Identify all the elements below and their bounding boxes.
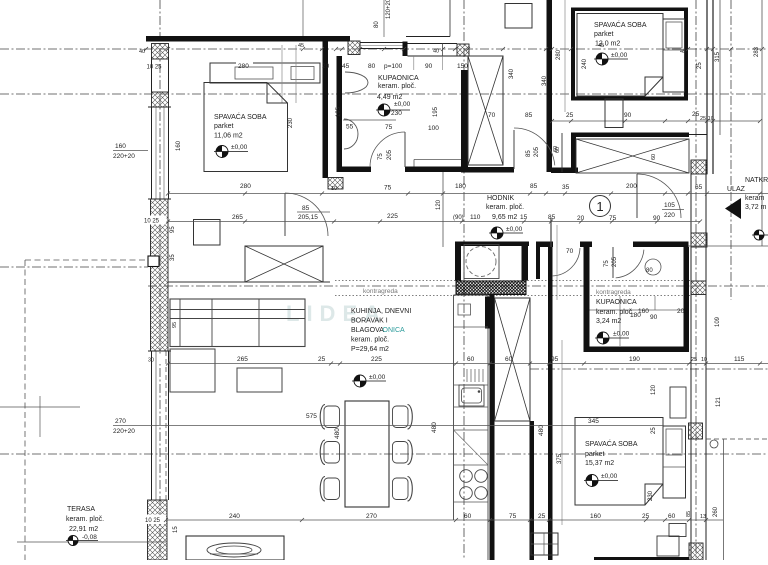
sofa	[170, 299, 305, 347]
dim line y=425 across	[160, 425, 663, 427]
left wall: long hatched segment	[151, 199, 169, 351]
kitchen wall x=490	[490, 295, 495, 560]
svg-text:±0,00: ±0,00	[394, 101, 411, 108]
svg-text:10: 10	[331, 186, 337, 192]
svg-text:270: 270	[366, 513, 377, 520]
washer niche box	[464, 245, 499, 279]
kitchen sink	[459, 385, 484, 406]
svg-text:75: 75	[609, 215, 617, 222]
corridor wall x=548 lower	[548, 247, 553, 560]
svg-text:160: 160	[115, 143, 126, 150]
svg-text:NATKR: NATKR	[745, 177, 768, 184]
svg-text:65: 65	[695, 184, 703, 191]
shaft below walls	[461, 167, 514, 173]
svg-text:230: 230	[288, 117, 294, 128]
svg-text:25: 25	[691, 357, 697, 363]
bedroom2 wardrobe	[505, 4, 532, 29]
svg-text:ONICA: ONICA	[383, 327, 406, 334]
bathroom1 vanity	[414, 159, 461, 161]
svg-text:60: 60	[467, 356, 475, 363]
svg-text:70: 70	[488, 112, 496, 119]
svg-text:75: 75	[385, 124, 393, 131]
svg-text:205,15: 205,15	[298, 214, 318, 221]
shaft box with X	[468, 56, 503, 165]
svg-text:kontragreda: kontragreda	[363, 288, 398, 295]
svg-text:40: 40	[139, 49, 145, 55]
svg-text:±0,00: ±0,00	[601, 473, 618, 480]
svg-text:160: 160	[176, 140, 182, 151]
svg-text:BORAVAK I: BORAVAK I	[351, 318, 388, 325]
svg-text:480: 480	[334, 428, 341, 439]
axis line V2 (vertical x=465)	[463, 0, 465, 560]
svg-text:220: 220	[664, 212, 675, 219]
svg-text:60: 60	[553, 146, 559, 152]
svg-text:ULAZ: ULAZ	[727, 186, 746, 193]
svg-text:25: 25	[538, 513, 546, 520]
right wall hatch pier 3	[691, 281, 706, 295]
left wall void edges	[151, 57, 153, 92]
bathroom1 toilet	[344, 119, 358, 149]
bathroom1/hall wall y=167 right	[405, 167, 461, 173]
svg-text:25: 25	[566, 112, 574, 119]
svg-text:190: 190	[629, 356, 640, 363]
bedroom3 label box	[575, 418, 663, 506]
svg-text:225: 225	[371, 356, 382, 363]
svg-text:SPAVAĆA SOBA: SPAVAĆA SOBA	[594, 20, 647, 29]
left wall text 10 25 (2)	[144, 216, 167, 225]
axis line V1 (vertical x=160)	[159, 0, 161, 560]
svg-text:10 25: 10 25	[147, 65, 163, 71]
bathroom1 sink	[345, 72, 368, 93]
svg-text:240: 240	[229, 513, 240, 520]
svg-text:230: 230	[391, 110, 402, 117]
axis line D (horizontal y=454)	[0, 453, 768, 455]
svg-text:p=100: p=100	[384, 63, 403, 70]
svg-text:90: 90	[650, 314, 658, 321]
svg-text:45: 45	[298, 43, 304, 49]
top wall bedroom1	[146, 36, 350, 42]
dim row y=363 living	[168, 363, 768, 365]
terrace table	[186, 536, 284, 560]
svg-text:-0,08: -0,08	[82, 534, 97, 541]
svg-text:15,37 m2: 15,37 m2	[585, 460, 614, 467]
svg-text:10: 10	[701, 357, 707, 363]
axis line C (horizontal y=286)	[148, 285, 768, 287]
line to porch	[689, 134, 707, 136]
bedroom3 nightstand bottom	[669, 524, 686, 537]
bedroom3 bottom edge wall	[594, 557, 689, 560]
svg-text:121: 121	[716, 396, 722, 407]
svg-text:45: 45	[342, 63, 350, 70]
svg-text:120: 120	[651, 384, 657, 395]
svg-text:345: 345	[588, 418, 599, 425]
svg-text:keram. ploč.: keram. ploč.	[486, 204, 524, 211]
bathroom2 left wall	[584, 242, 590, 353]
axis line V3 (vertical x=696)	[695, 0, 697, 560]
svg-text:3,72 m: 3,72 m	[745, 204, 767, 211]
svg-text:parket: parket	[214, 123, 234, 130]
svg-text:90: 90	[653, 215, 661, 222]
hall door leaf+arc (x=514)	[513, 130, 515, 169]
porch floor line	[672, 245, 768, 247]
bedroom2 bottom wall	[571, 97, 688, 101]
svg-text:parket: parket	[585, 451, 605, 458]
dim row y=193	[168, 193, 768, 195]
svg-text:KUPAONICA: KUPAONICA	[378, 75, 419, 82]
svg-text:85: 85	[526, 150, 532, 157]
svg-text:11,06 m2: 11,06 m2	[214, 133, 243, 140]
svg-text:±0,00: ±0,00	[369, 374, 386, 381]
right wall hatch pier 1	[691, 160, 707, 174]
svg-text:120: 120	[436, 199, 442, 210]
svg-text:keram. ploč.: keram. ploč.	[378, 83, 416, 90]
corridor wall x=548	[547, 0, 553, 172]
svg-text:160: 160	[590, 513, 601, 520]
svg-text:20: 20	[577, 215, 585, 222]
svg-text:80: 80	[646, 268, 653, 274]
shower tray bottom	[531, 533, 558, 555]
svg-text:95: 95	[172, 322, 178, 328]
axis line V4 (vertical x=731)	[730, 0, 732, 300]
svg-text:25: 25	[642, 513, 650, 520]
svg-text:KUHINJA, DNEVNI: KUHINJA, DNEVNI	[351, 308, 411, 315]
svg-text:109: 109	[715, 316, 721, 327]
svg-text:keram. ploč.: keram. ploč.	[596, 309, 634, 316]
svg-text:60: 60	[651, 154, 657, 160]
svg-text:BLAGOVA: BLAGOVA	[351, 327, 384, 334]
svg-text:205: 205	[612, 256, 618, 267]
svg-text:230: 230	[648, 490, 654, 501]
svg-text:20: 20	[322, 63, 330, 70]
kitchen counter outline	[453, 295, 455, 520]
svg-text:55: 55	[346, 124, 354, 131]
left wall text 10 25 (3)	[144, 515, 166, 525]
svg-text:P=29,64 m2: P=29,64 m2	[351, 346, 389, 353]
dim row y=221	[168, 221, 700, 223]
bathroom1 left wall	[337, 56, 343, 172]
svg-text:3,24 m2: 3,24 m2	[596, 318, 621, 325]
svg-text:195: 195	[336, 106, 342, 117]
svg-text:12,0 m2: 12,0 m2	[595, 41, 620, 48]
dim line top axis ticks	[144, 47, 148, 51]
svg-text:25: 25	[692, 111, 700, 118]
bedroom3 bed	[663, 426, 686, 498]
svg-text:200: 200	[626, 183, 637, 190]
svg-text:25: 25	[651, 427, 657, 434]
svg-text:±0,00: ±0,00	[506, 226, 523, 233]
hallway left edge line	[442, 172, 444, 247]
svg-text:70: 70	[566, 248, 574, 255]
pantry/stair xbox	[495, 298, 531, 421]
wall segment right of hall door	[551, 168, 578, 174]
kitchen divider lines	[454, 326, 489, 328]
door1 lobby leaf+arc	[550, 218, 552, 247]
svg-text:110: 110	[470, 214, 481, 221]
porch wall lines x=707-713	[706, 0, 708, 174]
window band 2	[408, 43, 458, 45]
svg-text:±0,00: ±0,00	[231, 144, 248, 151]
svg-text:10 25: 10 25	[144, 219, 160, 225]
svg-text:15: 15	[173, 526, 179, 533]
svg-text:180: 180	[455, 183, 466, 190]
svg-text:±0,00: ±0,00	[611, 52, 628, 59]
svg-text:1: 1	[596, 199, 603, 214]
dim row hallway top y=121	[552, 120, 760, 122]
svg-text:35: 35	[170, 254, 176, 261]
bedroom2 right wall	[684, 8, 688, 101]
wall x=530	[529, 298, 531, 421]
svg-text:22,91 m2: 22,91 m2	[69, 526, 98, 533]
right wall line pair	[690, 160, 692, 560]
svg-text:25: 25	[318, 356, 326, 363]
svg-text:SPAVAĆA SOBA: SPAVAĆA SOBA	[214, 112, 267, 121]
svg-text:160: 160	[638, 308, 649, 315]
svg-text:85: 85	[525, 112, 533, 119]
closet witness lines	[281, 45, 283, 103]
bedroom1 closet	[210, 63, 320, 83]
beam line above living room	[168, 281, 330, 283]
bedroom2 bed	[663, 19, 685, 92]
kitchen upper inner box	[458, 304, 471, 315]
svg-text:280: 280	[240, 183, 251, 190]
witness x=565	[564, 0, 566, 112]
svg-text:225: 225	[387, 213, 398, 220]
svg-text:kontragreda: kontragreda	[596, 289, 631, 296]
svg-text:60: 60	[505, 356, 513, 363]
svg-text:150: 150	[457, 63, 468, 70]
right wall hatch pier 5	[689, 543, 703, 560]
sink drainer lines	[466, 369, 468, 382]
svg-text:205: 205	[387, 149, 393, 160]
svg-text:(90): (90)	[453, 215, 464, 221]
svg-text:75: 75	[604, 260, 610, 267]
svg-text:240: 240	[582, 58, 588, 69]
bathroom2 interior lines	[590, 309, 684, 311]
hatch pier x=457	[457, 44, 469, 56]
bedroom1 desk	[194, 220, 221, 246]
left wall: bottom hatch pier	[148, 500, 168, 560]
coffee table	[237, 368, 282, 392]
door2 bathroom2 leaf+arc	[612, 247, 614, 278]
svg-text:25: 25	[697, 62, 703, 69]
bathroom1 right wall thick	[461, 70, 468, 172]
right wall hatch pier 4	[689, 423, 703, 439]
svg-text:95: 95	[170, 226, 176, 233]
hall bottom wall piece T	[580, 242, 592, 248]
svg-text:80: 80	[368, 63, 376, 70]
svg-text:keram. ploč.: keram. ploč.	[66, 516, 104, 523]
svg-text:45: 45	[680, 49, 686, 55]
svg-text:4,49 m2: 4,49 m2	[377, 94, 402, 101]
svg-text:115: 115	[734, 356, 745, 363]
axis left y=267	[0, 266, 148, 268]
axis line E (horizontal y=369 right)	[530, 368, 768, 370]
left wall: hatch pier 2	[152, 92, 169, 107]
svg-text:280: 280	[556, 49, 562, 60]
svg-text:95: 95	[551, 356, 559, 363]
svg-text:35: 35	[562, 184, 570, 191]
facade step outline	[406, 36, 450, 38]
closet top wall hall	[571, 133, 689, 138]
electrical panel box on left wall	[148, 256, 159, 267]
svg-text:340: 340	[542, 75, 548, 86]
terrace edge line	[17, 541, 166, 543]
axis line B (horizontal y=94)	[0, 93, 768, 95]
wc sink	[645, 259, 661, 275]
witness lines lobby	[556, 225, 558, 300]
entrance arrow	[725, 198, 741, 219]
left wall terrace door opening	[151, 351, 153, 500]
svg-text:85: 85	[302, 205, 310, 212]
left wall window (160/220+20)	[151, 107, 153, 199]
svg-text:85: 85	[548, 214, 556, 221]
hall closet with X	[576, 139, 689, 173]
svg-text:85: 85	[530, 183, 538, 190]
svg-text:keram: keram	[745, 195, 765, 202]
bedroom1 right wall	[323, 41, 329, 178]
svg-text:270: 270	[115, 418, 126, 425]
svg-text:315: 315	[715, 51, 721, 62]
svg-text:20: 20	[677, 308, 685, 315]
svg-text:480: 480	[431, 422, 438, 433]
svg-text:60: 60	[464, 513, 472, 520]
svg-text:280: 280	[238, 63, 249, 70]
terrace left guide	[0, 406, 80, 408]
bedroom1 door leaf+arc	[284, 193, 286, 236]
svg-text:80: 80	[374, 21, 380, 28]
bathroom1/hall wall y=167 left	[337, 167, 372, 173]
svg-text:205: 205	[534, 146, 540, 157]
svg-text:220+20: 220+20	[113, 153, 135, 160]
svg-text:40: 40	[433, 49, 439, 55]
duct rect below bedroom2	[605, 99, 623, 128]
bathroom1 door leaf+arc	[404, 132, 406, 167]
svg-text:90: 90	[624, 112, 632, 119]
svg-text:60: 60	[668, 513, 676, 520]
svg-text:265: 265	[237, 356, 248, 363]
svg-text:15: 15	[520, 214, 528, 221]
svg-text:HODNIK: HODNIK	[487, 195, 515, 202]
svg-text:120+20: 120+20	[386, 0, 392, 19]
svg-text:480: 480	[538, 425, 545, 436]
stove 4 plates	[460, 470, 473, 483]
window p=100 top	[360, 42, 404, 44]
svg-text:340: 340	[509, 68, 515, 79]
bedroom1 room label box	[204, 83, 288, 172]
svg-text:±0,00: ±0,00	[613, 331, 630, 338]
porch outer edge	[761, 0, 763, 246]
svg-text:10 25: 10 25	[145, 518, 161, 524]
svg-text:75: 75	[384, 185, 392, 192]
washer niche side walls	[455, 242, 461, 281]
top wall jog pier	[403, 42, 408, 57]
svg-text:283: 283	[754, 46, 760, 57]
dining chairs	[324, 406, 340, 428]
bathroom2 walls	[584, 347, 689, 353]
chaise below sofa	[170, 349, 215, 392]
svg-text:100: 100	[428, 125, 439, 132]
kontragreda beam (dark hatch)	[456, 281, 526, 295]
svg-text:220+20: 220+20	[113, 428, 135, 435]
dining table	[345, 401, 389, 507]
svg-text:105: 105	[664, 202, 675, 209]
svg-text:260: 260	[713, 506, 719, 517]
svg-text:13: 13	[700, 514, 706, 520]
right wall hatch pier 2	[691, 233, 707, 247]
bedroom1 closet xbox	[245, 246, 323, 282]
svg-text:575: 575	[306, 413, 317, 420]
hall bottom wall segment A	[455, 242, 529, 247]
svg-text:75: 75	[378, 153, 384, 160]
svg-text:85: 85	[686, 511, 692, 517]
number circle 1	[590, 196, 611, 217]
svg-text:90: 90	[425, 63, 433, 70]
svg-text:SPAVAĆA SOBA: SPAVAĆA SOBA	[585, 439, 638, 448]
hatch pier top wall	[348, 41, 360, 55]
kontragreda dotted outlines	[335, 280, 690, 282]
svg-text:parket: parket	[594, 31, 614, 38]
svg-text:keram. ploč.: keram. ploč.	[351, 337, 389, 344]
dim row y=520 bottom	[166, 519, 723, 521]
dashed line right y=439	[706, 438, 768, 440]
svg-text:375: 375	[557, 453, 563, 464]
property dashed boundary	[25, 259, 148, 261]
bathroom1 shower line	[343, 119, 396, 121]
bedroom2 left wall	[571, 8, 575, 101]
hatch pier bedroom1 door	[328, 178, 343, 190]
svg-text:KUPAONICA: KUPAONICA	[596, 299, 637, 306]
dim verticals above top wall	[302, 0, 304, 36]
axis line A (horizontal y=49)	[0, 48, 768, 50]
svg-text:TERASA: TERASA	[67, 506, 95, 513]
svg-text:195: 195	[433, 106, 439, 117]
closet left wall stub	[571, 133, 576, 172]
bedroom2 label box	[577, 14, 663, 97]
fridge lines	[454, 430, 489, 465]
bedroom3 nightstand top	[670, 387, 686, 418]
bedroom2 top wall	[571, 8, 688, 12]
bedroom3 chair bottom	[657, 536, 679, 556]
entrance door leaf+arc	[636, 174, 638, 218]
kitchen tall cabinet	[485, 297, 490, 329]
svg-text:75: 75	[509, 513, 517, 520]
svg-text:265: 265	[232, 214, 243, 221]
svg-text:9,65 m2: 9,65 m2	[492, 214, 517, 221]
left wall: top pier hatch	[152, 44, 169, 60]
hall bottom wall right piece	[633, 242, 689, 248]
